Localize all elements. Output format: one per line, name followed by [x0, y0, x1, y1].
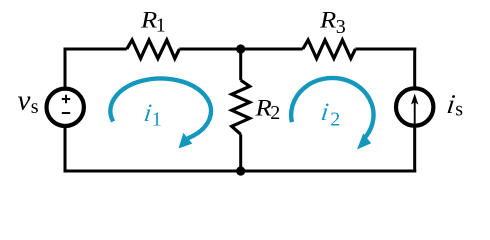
wire middle branch lower	[239, 134, 242, 171]
wire top-middle segment	[179, 48, 302, 51]
is arrow head	[411, 94, 418, 105]
svg-text:s: s	[455, 99, 463, 121]
mesh current i2 arc	[291, 78, 373, 138]
wire right branch lower	[413, 126, 416, 173]
svg-text:2: 2	[330, 109, 340, 131]
vs minus sign	[62, 112, 70, 114]
svg-text:1: 1	[152, 109, 162, 131]
mesh current i2 arrowhead	[357, 134, 371, 150]
svg-text:3: 3	[336, 16, 346, 38]
wire right branch upper	[413, 48, 416, 90]
wire left branch lower	[64, 126, 67, 173]
resistor R1	[127, 40, 180, 59]
node A top middle junction dot	[236, 44, 245, 53]
svg-text:R: R	[254, 96, 271, 121]
svg-text:s: s	[31, 96, 39, 118]
mesh current i1 arc	[110, 78, 211, 138]
svg-text:R: R	[140, 8, 157, 33]
svg-text:2: 2	[270, 102, 280, 124]
vs plus sign	[62, 95, 70, 103]
svg-text:v: v	[18, 85, 31, 117]
is arrow stem	[414, 102, 416, 124]
wire left branch upper	[64, 48, 67, 90]
node B bottom middle junction dot	[236, 166, 245, 175]
svg-text:1: 1	[156, 15, 166, 37]
resistor R2	[232, 80, 250, 134]
current source is circle	[396, 88, 433, 125]
wire bottom	[64, 170, 417, 173]
wire middle branch upper	[239, 49, 242, 80]
wire top-right segment	[355, 48, 416, 51]
voltage source vs circle	[46, 89, 83, 126]
wire top-left segment	[64, 48, 127, 51]
mesh current i1 arrowhead	[179, 133, 193, 149]
svg-text:R: R	[319, 8, 336, 33]
resistor R3	[303, 40, 356, 59]
